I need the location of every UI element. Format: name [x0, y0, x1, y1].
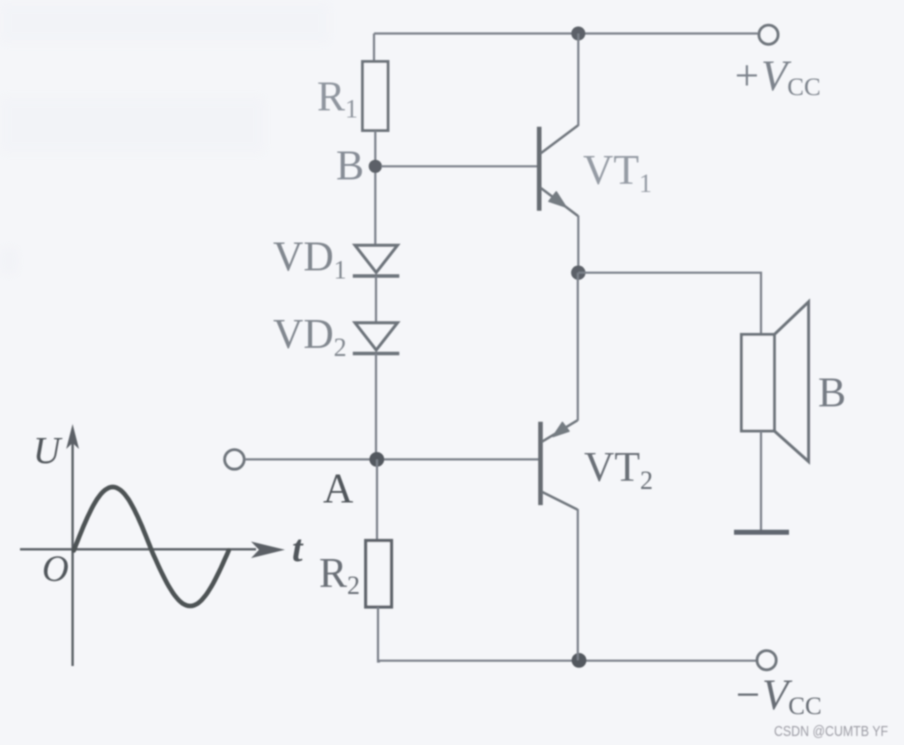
node B dot — [369, 160, 382, 173]
speaker B — [741, 302, 808, 462]
svg-text:O: O — [42, 549, 69, 590]
node A dot — [369, 452, 384, 467]
VT2 base bar — [538, 422, 543, 505]
VT2 emitter diagonal — [542, 420, 578, 442]
VT1 base bar — [537, 127, 542, 211]
U axis arrowhead — [66, 424, 79, 449]
transistor VT2 — [541, 273, 578, 661]
terminal -Vcc circle — [757, 651, 776, 670]
svg-text:t: t — [292, 528, 304, 570]
VT1 emitter arrowhead — [549, 192, 566, 207]
resistor R1 — [363, 62, 389, 131]
svg-text:A: A — [323, 467, 354, 513]
wire: node A down to R2 — [376, 459, 378, 541]
wire: top rail horizontal to +Vcc — [374, 32, 758, 34]
wire: R2 bottom to bottom rail corner — [378, 607, 380, 662]
node: output junction dot — [571, 266, 585, 280]
wire: VD2 to node A — [375, 354, 377, 461]
VT1 emitter diagonal with arrow — [541, 188, 579, 216]
VT2 emitter arrowhead — [553, 422, 569, 436]
VT1 collector vertical wire — [577, 34, 579, 127]
node: top junction dot — [571, 27, 585, 41]
wire: between VD1 and VD2 — [375, 276, 377, 323]
svg-text:CSDN @CUMTB YF: CSDN @CUMTB YF — [774, 723, 888, 740]
t axis arrowhead — [251, 542, 285, 559]
node: bottom junction dot — [572, 653, 587, 668]
faint print smudge left edge — [0, 248, 18, 274]
svg-text:U: U — [33, 430, 63, 472]
ground — [734, 530, 789, 535]
wire: input to base of VT2 — [245, 458, 540, 460]
wire: base of VT1 from node B — [381, 165, 539, 167]
input waveform axes: vertical U axis — [71, 437, 73, 666]
svg-text:B: B — [818, 371, 846, 417]
wire: speaker to ground — [760, 431, 762, 530]
faint print smudge top-left band 2 — [0, 96, 265, 154]
wire: bottom rail horizontal to -Vcc — [378, 660, 757, 662]
sine wave — [74, 487, 229, 606]
wire: R1 bottom to node B and down to VD1 — [374, 131, 376, 246]
input waveform axes: horizontal t axis — [20, 548, 256, 550]
transistor VT1 — [539, 34, 578, 273]
diode VD1 — [353, 245, 400, 276]
VT2 collector diagonal — [542, 492, 578, 510]
wire: output node to speaker — [578, 273, 761, 335]
resistor R2 — [366, 541, 392, 608]
VT2 collector vertical wire — [577, 509, 579, 660]
diode VD2 — [353, 323, 400, 354]
VT1 emitter vertical wire — [577, 216, 579, 273]
svg-text:B: B — [336, 144, 364, 190]
faint print smudge top-left band 1 — [0, 2, 330, 44]
wire: top rail corner above R1 — [373, 34, 375, 63]
terminal +Vcc circle — [759, 25, 778, 44]
VT1 collector diagonal — [541, 125, 579, 153]
VT2 emitter vertical wire — [577, 273, 579, 421]
terminal input circle — [225, 450, 245, 470]
